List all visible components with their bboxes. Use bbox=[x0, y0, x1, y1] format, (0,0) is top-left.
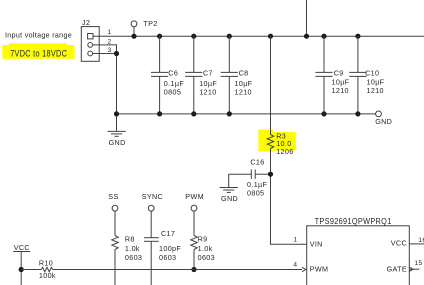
junction dot feed/top bus bbox=[304, 34, 309, 39]
IC pin 16 VCC bbox=[391, 237, 424, 248]
svg-text:C9: C9 bbox=[334, 69, 344, 78]
capacitor C7 bbox=[185, 36, 217, 114]
wire R3 to VIN corner bbox=[271, 149, 307, 245]
svg-text:Input voltage range: Input voltage range bbox=[5, 31, 72, 40]
net SYNC bbox=[142, 192, 163, 238]
junction dot C10/bottom bus bbox=[355, 111, 360, 116]
svg-text:0805: 0805 bbox=[247, 188, 264, 197]
svg-text:100pF: 100pF bbox=[159, 244, 181, 253]
svg-text:0603: 0603 bbox=[159, 253, 176, 262]
svg-text:4: 4 bbox=[293, 261, 297, 268]
svg-text:16: 16 bbox=[418, 237, 424, 244]
junction dot R3/top bus bbox=[268, 34, 273, 39]
wire J2 pin2 bbox=[93, 45, 117, 54]
wire top bus bbox=[93, 35, 424, 37]
svg-text:TP2: TP2 bbox=[143, 19, 157, 28]
junction dot J2 pins 2-3 bbox=[114, 51, 119, 56]
svg-text:R8: R8 bbox=[125, 235, 135, 244]
svg-text:C17: C17 bbox=[161, 229, 175, 238]
wire J2 pin3 bbox=[93, 53, 117, 55]
connector J2 pin2 circle bbox=[88, 43, 93, 48]
svg-text:GND: GND bbox=[109, 138, 126, 147]
junction dot C8/bottom bus bbox=[227, 111, 232, 116]
junction dot TP2/bus bbox=[131, 34, 136, 39]
svg-text:0.1µF: 0.1µF bbox=[164, 79, 185, 88]
svg-text:2: 2 bbox=[108, 38, 112, 45]
svg-text:1206: 1206 bbox=[276, 147, 293, 156]
junction dot C10/top bus bbox=[355, 34, 360, 39]
svg-text:1210: 1210 bbox=[367, 86, 384, 95]
svg-text:1: 1 bbox=[108, 29, 112, 36]
wire TP2 drop bbox=[133, 27, 135, 37]
svg-text:VCC: VCC bbox=[14, 243, 30, 252]
wire top vertical feed bbox=[306, 0, 308, 36]
svg-text:1.0k: 1.0k bbox=[198, 244, 213, 253]
svg-text:1.0k: 1.0k bbox=[125, 244, 140, 253]
resistor R9 bbox=[191, 235, 215, 262]
connector J2 pin3 circle bbox=[88, 51, 93, 56]
svg-text:GND: GND bbox=[375, 117, 392, 126]
junction dot C9/top bus bbox=[321, 34, 326, 39]
svg-text:C16: C16 bbox=[250, 157, 264, 166]
svg-text:10µF: 10µF bbox=[367, 78, 385, 87]
svg-text:R10: R10 bbox=[39, 258, 53, 267]
svg-text:C6: C6 bbox=[168, 69, 178, 78]
power VCC bbox=[13, 243, 30, 285]
svg-text:VCC: VCC bbox=[391, 239, 407, 248]
wire PWM line bbox=[53, 269, 302, 271]
junction dot C7/top bus bbox=[191, 34, 196, 39]
junction dot C9/bottom bus bbox=[321, 111, 326, 116]
connector J2 pin1 square bbox=[88, 34, 93, 39]
ground net circle right bbox=[375, 111, 392, 126]
svg-text:1: 1 bbox=[293, 237, 297, 244]
svg-text:0805: 0805 bbox=[164, 88, 181, 97]
svg-text:GND: GND bbox=[221, 194, 238, 203]
wire R9 bottom bbox=[193, 250, 195, 270]
wire bottom bus bbox=[117, 113, 376, 115]
IC pin 15 GATE bbox=[387, 260, 423, 274]
wire C17 bottom bbox=[150, 241, 152, 285]
connector J2 box bbox=[81, 27, 99, 62]
svg-text:10µF: 10µF bbox=[199, 79, 217, 88]
svg-text:1210: 1210 bbox=[199, 88, 216, 97]
capacitor C9 bbox=[315, 36, 349, 114]
IC pin 1 VIN bbox=[293, 237, 322, 249]
svg-text:0603: 0603 bbox=[198, 253, 215, 262]
svg-text:0603: 0603 bbox=[125, 253, 142, 262]
svg-text:C8: C8 bbox=[239, 69, 249, 78]
junction dot PWM line bbox=[191, 267, 196, 272]
svg-text:3: 3 bbox=[108, 47, 112, 54]
svg-text:SYNC: SYNC bbox=[142, 192, 163, 201]
svg-text:SS: SS bbox=[108, 192, 118, 201]
svg-text:R9: R9 bbox=[198, 235, 208, 244]
net SS bbox=[108, 192, 118, 236]
junction dot C6/top bus bbox=[157, 34, 162, 39]
svg-text:10µF: 10µF bbox=[235, 79, 253, 88]
wire GND drop from J2 bbox=[116, 54, 118, 132]
svg-text:J2: J2 bbox=[82, 18, 90, 27]
wire VCC to R10 bbox=[21, 269, 41, 271]
svg-text:C10: C10 bbox=[365, 69, 379, 78]
svg-text:1210: 1210 bbox=[332, 86, 349, 95]
capacitor C17 bbox=[144, 229, 181, 262]
test point TP2 circle bbox=[131, 21, 137, 27]
junction dot C6/bottom bus bbox=[157, 111, 162, 116]
svg-text:GATE: GATE bbox=[387, 265, 407, 274]
IC pin 4 PWM bbox=[293, 261, 328, 273]
junction dot VCC bbox=[19, 267, 24, 272]
svg-text:1210: 1210 bbox=[235, 88, 252, 97]
svg-text:10µF: 10µF bbox=[332, 78, 350, 87]
wire VIN column (top bus to R3) bbox=[270, 36, 272, 134]
highlight: input voltage note bbox=[2, 43, 74, 59]
resistor R3 bbox=[267, 131, 293, 156]
ground symbol left bbox=[108, 131, 126, 147]
junction dot C8/top bus bbox=[227, 34, 232, 39]
capacitor C16 bbox=[229, 157, 271, 197]
highlight: R3 bbox=[258, 130, 296, 152]
junction dot C16/VIN column bbox=[268, 172, 273, 177]
ground symbol C16 bbox=[220, 174, 238, 203]
resistor R10 bbox=[39, 258, 56, 280]
svg-text:C7: C7 bbox=[203, 69, 213, 78]
junction dot C7/bottom bus bbox=[191, 111, 196, 116]
svg-text:15: 15 bbox=[415, 260, 423, 267]
capacitor C6 bbox=[151, 36, 184, 114]
resistor R8 bbox=[112, 235, 142, 262]
capacitor C10 bbox=[349, 36, 384, 114]
svg-text:7VDC to 18VDC: 7VDC to 18VDC bbox=[10, 48, 67, 58]
svg-text:VIN: VIN bbox=[310, 239, 323, 248]
svg-text:PWM: PWM bbox=[310, 265, 329, 274]
IC U1 TPS92691QPWPRQ1 box bbox=[307, 226, 410, 285]
svg-text:100k: 100k bbox=[39, 271, 56, 280]
svg-text:TPS92691QPWPRQ1: TPS92691QPWPRQ1 bbox=[315, 217, 392, 226]
wire R8 bottom bbox=[114, 250, 116, 285]
junction dot gnd tap/bottom bus bbox=[114, 111, 119, 116]
capacitor C8 bbox=[221, 36, 253, 114]
svg-text:PWM: PWM bbox=[185, 192, 204, 201]
net PWM bbox=[185, 192, 204, 236]
